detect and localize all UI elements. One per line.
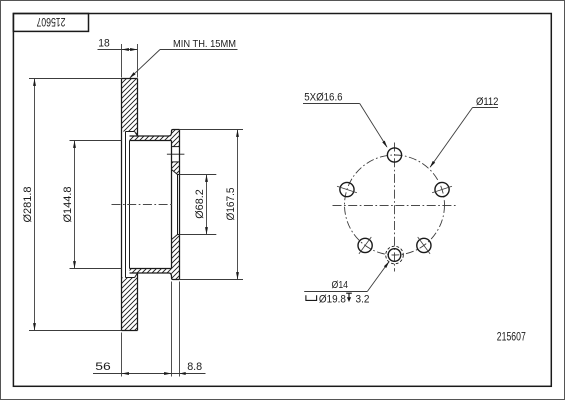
radial tick hole 2: [337, 186, 357, 193]
bolt hole centerline tick: [167, 153, 185, 155]
dim 18: dimension line: [98, 49, 138, 51]
svg-text:Ø68.2: Ø68.2: [194, 189, 206, 219]
bolt hole 3 (5xD16.6): [435, 182, 449, 196]
disc outer left face line: [121, 79, 123, 331]
leader MIN TH. 15MM: [160, 49, 238, 51]
section axis centerline: [112, 204, 173, 206]
hatched section: hub wall above bore: [172, 162, 180, 175]
bottom web bottom face and flange bottom: [130, 273, 180, 280]
bolt circle D112 dash-dot: [345, 155, 445, 255]
hatched section: top web plate: [130, 136, 172, 141]
hatched section: bottom web plate: [130, 269, 172, 274]
svg-text:MIN TH. 15MM: MIN TH. 15MM: [173, 38, 236, 50]
ring step fillet bottom: [135, 273, 138, 278]
svg-text:Ø167.5: Ø167.5: [225, 188, 237, 221]
svg-text:Ø19.8: Ø19.8: [319, 293, 346, 305]
hub wall left face: [171, 141, 173, 269]
dim D68.2: extension lines: [180, 174, 217, 176]
ring right face lower: [137, 273, 139, 331]
bottom web top face: [130, 268, 172, 270]
svg-text:Ø144.8: Ø144.8: [62, 187, 74, 223]
leader 5XD16.6: [303, 103, 360, 105]
bore bottom edge: [178, 234, 180, 236]
hatched section: hub flange upper: [172, 130, 180, 147]
svg-text:18: 18: [98, 37, 110, 49]
depth symbol: [346, 292, 352, 294]
bolt hole upper void edges: [172, 146, 180, 148]
ring right face upper: [137, 79, 139, 137]
leader D14 counterbore: [304, 291, 367, 293]
dim 56/8.8: dimension line: [93, 373, 206, 375]
svg-text:Ø281.8: Ø281.8: [22, 187, 34, 223]
svg-text:215607: 215607: [36, 15, 65, 29]
ring step bottom edge: [126, 277, 135, 279]
dim D167.5: extension lines: [180, 129, 243, 131]
dim D281.8: extension lines: [29, 78, 122, 80]
ring top edge: [122, 78, 138, 80]
hatched section: hub wall and flange lower: [172, 235, 180, 280]
svg-text:Ø112: Ø112: [476, 96, 499, 108]
ring step top edge: [126, 131, 135, 133]
leader D112: [473, 107, 499, 109]
dim D281.8: dimension line: [34, 79, 36, 331]
radial tick hole 3: [432, 186, 452, 193]
hatched section: friction ring upper: [122, 79, 138, 137]
bore top edge: [178, 174, 180, 176]
dim D167.5: dimension line: [237, 130, 239, 280]
dim D68.2: dimension line: [206, 175, 208, 235]
hatched section: friction ring lower: [122, 273, 138, 331]
svg-text:Ø14: Ø14: [332, 279, 349, 291]
svg-text:56: 56: [95, 361, 111, 373]
svg-text:3.2: 3.2: [356, 293, 370, 305]
title box top-left: [13, 14, 88, 32]
bolt hole 5 (5xD16.6): [417, 238, 431, 252]
svg-text:8.8: 8.8: [187, 361, 202, 373]
ring bottom edge: [122, 330, 138, 332]
counterbore D19.8 dashed circle: [386, 246, 404, 264]
hub wall right face: [179, 130, 181, 280]
dim D144.8: dimension line: [74, 141, 76, 269]
ring bore edge line: [129, 141, 131, 269]
dim 56 and 8.8: extension lines: [121, 333, 123, 377]
dim D144.8: extension lines: [70, 140, 122, 142]
svg-text:215607: 215607: [497, 330, 526, 344]
bolt circle centerline vertical: [394, 143, 396, 272]
bore silhouette line: [177, 175, 179, 235]
bolt circle centerline horizontal: [333, 205, 458, 207]
bolt hole 2 (5xD16.6): [340, 182, 354, 196]
ring inner step line: [125, 132, 127, 278]
top web top face and flange top: [130, 130, 180, 137]
radial tick hole 5: [418, 237, 430, 254]
top web bottom face: [130, 140, 172, 142]
bolt hole 4 (5xD16.6): [358, 238, 372, 252]
counterbore symbol: [306, 295, 317, 300]
ring step fillet top: [135, 132, 138, 137]
bore chamfer lower: [172, 235, 178, 240]
radial tick hole 4: [359, 237, 371, 254]
bolt hole 1 (5xD16.6): [387, 148, 401, 162]
dim 18: extension lines: [121, 44, 123, 78]
bore chamfer upper: [172, 170, 178, 175]
svg-text:5XØ16.6: 5XØ16.6: [304, 91, 342, 103]
center small hole D14: [388, 249, 401, 262]
